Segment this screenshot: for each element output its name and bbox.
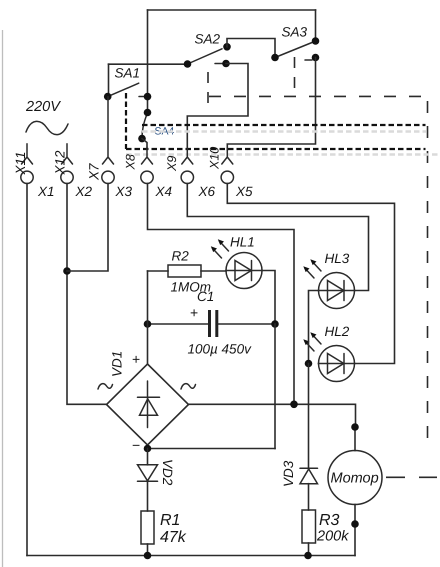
grey echo line y154 [126,153,440,156]
svg-text:Мотор: Мотор [331,471,379,487]
svg-text:X3: X3 [115,184,133,199]
svg-text:VD1: VD1 [110,351,125,377]
terminal X10 fork [222,150,233,164]
node bridge minus [144,445,152,453]
svg-text:X8: X8 [124,154,138,170]
terminal X12 fork [62,144,73,164]
wire DC minus rail [148,448,276,450]
wire SA2 lower contact to X9 [187,64,248,148]
terminal X9 fork [182,147,193,164]
wire top bus [148,9,316,11]
wire HL1 to right rail [262,271,275,325]
svg-text:X11: X11 [13,151,28,175]
node R1 bottom [144,552,152,560]
wire X3 to X2 line [67,184,108,271]
label X12 [53,150,68,176]
AC sine symbol [26,121,68,134]
label X7 [87,163,102,181]
capacitor C1 [148,310,276,337]
svg-text:X6: X6 [198,184,216,199]
svg-text:X10: X10 [208,147,222,170]
mech link dashed SA3 [294,57,296,89]
node HL2 left [305,360,313,368]
svg-text:R1: R1 [160,512,180,529]
wire X2 down to bridge left [67,184,107,405]
svg-text:X7: X7 [87,163,102,181]
wire SA1 left contact drop [108,64,110,96]
LED HL3 [303,259,354,308]
terminal X11 fork [22,144,33,164]
wire X1 to bottom rail [26,184,28,556]
svg-text:R2: R2 [172,249,190,264]
dashed line y149 [126,148,426,150]
svg-text:X9: X9 [165,156,179,172]
resistor R3 [302,510,316,556]
resistor R2 [148,265,227,277]
svg-text:X1: X1 [37,184,55,199]
wire bottom rail [27,555,355,557]
grey echo line y131 [142,130,426,133]
switch SA2 [184,43,231,68]
svg-text:HL1: HL1 [230,235,255,250]
wire HL2 left down to VD3 [308,364,310,469]
label VD3 [281,460,296,487]
svg-text:220V: 220V [25,99,61,115]
wire X4 down right to DC+ rail [148,184,295,405]
wire mains feed to SA1/SA2 [109,63,188,65]
label tilde right [181,384,196,389]
label X10 [208,147,222,170]
wire main vertical from top bus to SA1/SA4 [147,10,149,113]
node X2/X3 junction [63,267,71,275]
wire SA3 top feed down [315,10,317,41]
wire SA2 upper contact to SA3 left [227,39,275,58]
node DC plus / X4 [290,401,298,409]
svg-text:+: + [132,351,140,367]
mech link dashed horizontal to right edge [209,95,429,97]
svg-text:−: − [132,437,140,453]
terminal X2 socket [61,171,73,183]
wire C1 right column down to minus rail [274,324,276,449]
label X8 [124,154,138,170]
svg-text:SA1: SA1 [115,66,141,81]
mech link dashed SA2 [207,72,209,106]
label X9 [165,156,179,172]
terminal X8 fork [142,147,153,164]
svg-text:VD2: VD2 [160,459,175,486]
svg-text:HL2: HL2 [325,324,350,339]
wire X5 to HL2 [227,184,394,364]
LED HL2 [303,332,354,381]
motor M1 [328,423,382,555]
svg-text:X5: X5 [235,184,253,199]
switch SA3 [271,37,319,61]
wire X6 to HL3 [187,184,368,291]
svg-text:SA3: SA3 [282,25,308,40]
wire SA3 lower contact to X10 [227,58,315,151]
svg-text:HL3: HL3 [325,251,350,266]
terminal X5 socket [221,171,233,183]
wire HL3 left down to HL2 left [309,291,319,364]
wire DC plus column [147,271,149,364]
diode VD3 [300,468,318,510]
label tilde left [98,384,113,389]
LED HL1 [211,239,262,288]
svg-text:VD3: VD3 [281,460,296,487]
svg-text:X4: X4 [155,184,173,199]
diode VD2 [138,449,158,512]
mech link dashes into motor [386,476,437,478]
mech link dashed vertical right edge [427,101,429,450]
label VD2 [160,459,175,486]
switch SA4 [138,109,151,147]
terminal X6 socket [181,171,193,183]
wire bridge right to motor column [189,404,356,427]
switch SA1 [104,83,151,100]
resistor R1 [141,511,154,556]
node C1 right [271,320,279,328]
svg-text:100µ 450v: 100µ 450v [188,342,253,357]
svg-text:R3: R3 [319,512,340,529]
bridge rectifier VD1 [107,364,189,445]
svg-text:SA2: SA2 [195,31,221,46]
terminal X1 socket [21,171,33,183]
svg-text:+: + [190,305,198,321]
node C1 left [144,320,152,328]
dashed line y125 [142,124,426,126]
dashed box SA1 vertical [125,93,127,149]
terminal X3 socket [102,171,114,183]
svg-text:X2: X2 [75,184,93,199]
svg-text:200k: 200k [316,529,349,545]
terminal X7 fork [103,97,114,164]
svg-text:47k: 47k [160,529,187,546]
node R3 bottom [304,552,312,560]
label VD1 [110,351,125,377]
terminal X4 socket [141,171,153,183]
svg-text:X12: X12 [53,150,68,176]
label X11 [13,151,28,175]
svg-text:C1: C1 [197,289,214,304]
